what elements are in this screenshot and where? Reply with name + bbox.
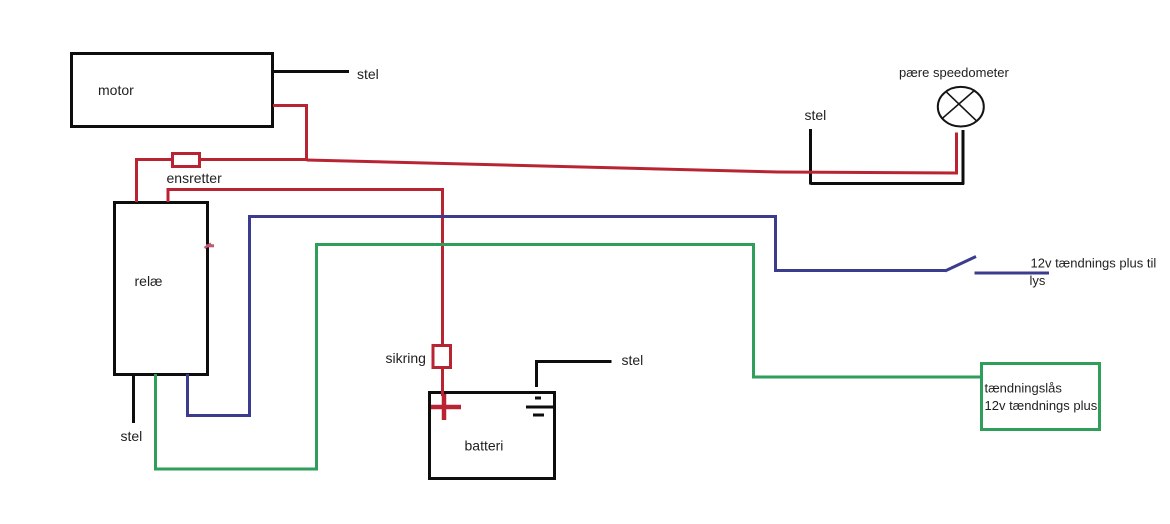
svg-text:sikring: sikring (386, 350, 426, 366)
svg-text:batteri: batteri (465, 438, 504, 454)
svg-text:ensretter: ensretter (167, 170, 223, 186)
svg-text:stel: stel (121, 428, 143, 444)
svg-text:motor: motor (98, 82, 134, 98)
svg-text:tændningslås: tændningslås (985, 381, 1063, 396)
svg-text:stel: stel (805, 107, 827, 123)
svg-text:stel: stel (622, 352, 644, 368)
svg-text:12v tændnings plus: 12v tændnings plus (985, 398, 1098, 413)
svg-text:pære speedometer: pære speedometer (899, 65, 1010, 80)
svg-text:lys: lys (1030, 273, 1046, 288)
svg-text:12v tændnings plus til: 12v tændnings plus til (1031, 256, 1157, 271)
svg-text:relæ: relæ (135, 273, 163, 289)
svg-text:stel: stel (357, 66, 379, 82)
